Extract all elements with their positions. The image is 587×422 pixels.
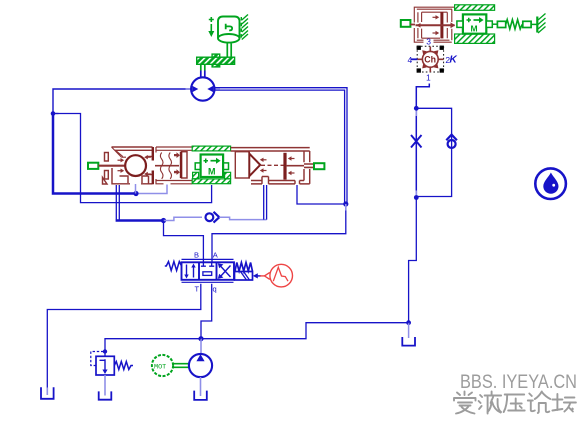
rails	[182, 259, 234, 282]
wire W3 B-line	[164, 221, 204, 263]
fluid properties icon F1	[535, 168, 566, 199]
wall anchor right of load	[241, 15, 248, 40]
wire W12 P-line	[201, 284, 212, 339]
svg-text:K: K	[450, 55, 458, 66]
tank T3	[194, 391, 207, 400]
pump tank stub	[200, 377, 202, 396]
hydraulic motor M1	[186, 77, 221, 100]
green hatched block bottom	[455, 34, 495, 43]
char ai	[454, 392, 476, 414]
svg-text:MOT: MOT	[154, 363, 166, 371]
svg-text:3: 3	[426, 37, 431, 47]
gear block (hatched)	[197, 54, 235, 67]
selection handles	[417, 46, 421, 50]
char ya	[504, 395, 525, 413]
arrows right of cone	[260, 158, 267, 173]
shaft load-gear (green double)	[227, 44, 231, 58]
wire CV1 to valve stubs	[219, 217, 266, 219]
left spring	[165, 262, 182, 271]
wire to check valve CV1	[164, 217, 203, 220]
green hatched block top	[455, 5, 495, 11]
arrows right of springs	[174, 152, 180, 175]
svg-text:M: M	[208, 167, 216, 177]
X throttle R1	[411, 135, 422, 148]
tank T4	[402, 337, 415, 346]
green port right	[314, 163, 324, 169]
node N9 junction dot	[103, 349, 107, 353]
wire stub above N6	[415, 191, 417, 198]
valve body	[182, 262, 235, 280]
arrows right of land	[288, 156, 295, 175]
green hatched top bar	[192, 146, 230, 151]
wire D1 thick run	[116, 219, 164, 221]
Ch component U4 (selected)	[408, 46, 458, 83]
wire W14 relief line	[105, 339, 201, 356]
wire W15 T-line to tank T1	[47, 284, 201, 388]
solenoid box	[235, 272, 253, 281]
node N6 junction dot	[414, 195, 419, 200]
port number labels	[408, 55, 451, 82]
load inertia J (green rotary load)	[218, 17, 240, 43]
node N2 junction dot	[133, 191, 138, 196]
wire W1b node to valve stub	[136, 185, 167, 194]
arrows at ball	[118, 155, 151, 176]
node N5 junction dot	[414, 106, 419, 111]
node N7 junction dot	[406, 320, 411, 325]
wire stub valve to N2	[135, 184, 137, 194]
wire stub below N5	[415, 108, 417, 116]
green port left	[401, 20, 411, 27]
green port left	[88, 163, 98, 169]
small wedge bottom-left	[103, 178, 108, 185]
port stubs	[417, 47, 443, 73]
svg-text:M: M	[471, 24, 478, 34]
node N3 junction dot	[161, 218, 166, 223]
check valve CV2	[446, 135, 457, 148]
wire W5 valve right-bottom stub to node	[297, 185, 346, 204]
node N1 junction dot	[51, 111, 56, 116]
ball poppet	[125, 155, 146, 176]
right spring	[235, 263, 252, 272]
green hatched bottom blocks	[192, 179, 230, 184]
mass block M	[195, 155, 228, 178]
svg-text:1: 1	[426, 72, 431, 82]
signal source S1 (red)	[260, 264, 293, 287]
wire W8 check branch loop	[416, 108, 451, 196]
piston	[182, 152, 188, 178]
white chamber	[235, 152, 249, 178]
wire W2	[53, 114, 212, 203]
box2 closed center symbols	[201, 262, 214, 275]
wire W9 down to node N7	[409, 198, 417, 323]
spool stem	[416, 24, 455, 26]
blue stub left	[411, 58, 418, 60]
char tan	[552, 394, 576, 412]
stem to ball	[99, 165, 126, 167]
load arrow	[208, 17, 214, 37]
svg-text:q: q	[213, 285, 217, 294]
spring linkage right	[492, 14, 545, 34]
spool land	[283, 153, 286, 180]
relief valve RV1	[91, 352, 133, 376]
wire W4 A-line	[212, 204, 346, 262]
stem arrows	[416, 15, 455, 35]
stem out right	[287, 164, 314, 167]
node N8 junction dot	[198, 336, 203, 341]
shaft gear-motor	[201, 65, 205, 71]
spring section springs	[155, 153, 179, 179]
wire W11 return line	[201, 323, 409, 339]
char ye	[479, 392, 502, 414]
body outline spring section	[156, 147, 192, 184]
tank T2	[99, 391, 112, 399]
diagonal arrows	[422, 50, 438, 68]
wire stub below N4	[345, 204, 347, 211]
wire D2 double line from motor	[215, 88, 348, 204]
wire double stubs right	[264, 185, 267, 220]
spool land dark	[440, 12, 443, 38]
port labels	[194, 250, 218, 293]
pump P1	[189, 354, 212, 377]
box3 crossed arrows	[218, 263, 231, 279]
svg-text:Ch: Ch	[424, 55, 436, 65]
char lun	[528, 392, 551, 414]
wire W10 stub to tank T4	[408, 323, 410, 338]
svg-text:BBS. IYEYA.CN: BBS. IYEYA.CN	[460, 371, 577, 393]
pilot valve body U3	[414, 7, 454, 42]
selection dashed box	[417, 46, 443, 72]
poppet cone	[249, 154, 260, 177]
body outline right section	[231, 148, 310, 184]
mass block M2	[457, 14, 492, 33]
box1 arrows	[184, 264, 195, 279]
relief valve tank stub	[104, 375, 106, 396]
divider wall	[152, 147, 154, 184]
wire W7 from Ch down	[416, 84, 429, 198]
prime mover MOT	[152, 355, 173, 376]
tank T1 stub	[46, 388, 48, 396]
valve body outline left section	[105, 147, 153, 184]
Ch circle	[422, 51, 438, 67]
svg-text:A: A	[213, 250, 218, 259]
wire W13 pump stub	[200, 339, 202, 355]
svg-text:T: T	[195, 285, 200, 294]
wire D1 double line valve bottom	[116, 185, 119, 220]
node N4 junction dot	[343, 201, 348, 206]
svg-text:B: B	[194, 250, 199, 259]
solenoid input arrow blue	[257, 275, 262, 277]
wire W1 motor-left to node	[53, 89, 191, 114]
shaft MOT-pump	[173, 364, 189, 368]
check valve CV1	[206, 212, 220, 223]
tank T1	[41, 387, 54, 399]
stem cone to spool	[261, 164, 284, 166]
watermark chinese 爱液压论坛 (drawn strokes)	[454, 392, 576, 414]
